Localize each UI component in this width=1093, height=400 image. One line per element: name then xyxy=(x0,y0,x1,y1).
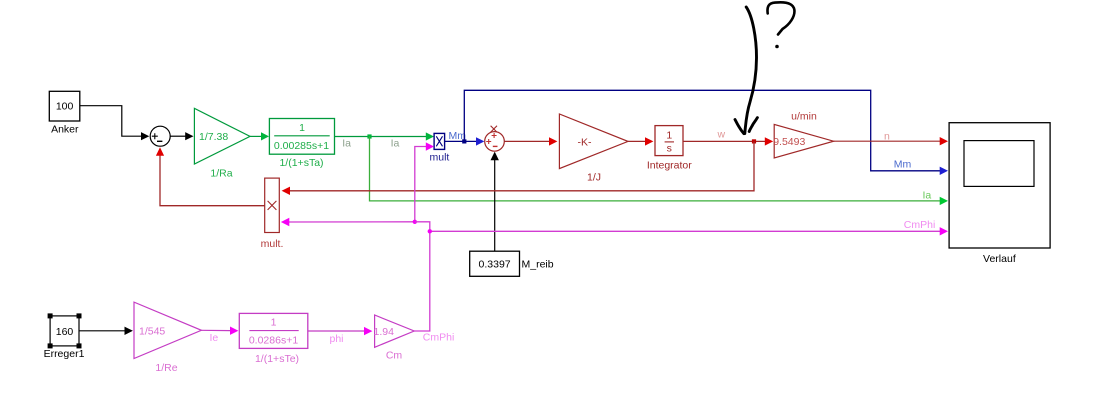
hand-drawn question mark (annotation) xyxy=(767,2,794,48)
wire Mm feedback to scope (up, across top, down) xyxy=(464,90,948,175)
constant M_reib (0.3397) xyxy=(470,251,554,276)
scope Verlauf xyxy=(949,123,1050,265)
wire w feedback (down then left) to mult. xyxy=(282,141,754,195)
transfer function 1/(1+sTe) xyxy=(239,313,307,364)
wire phi: TF to gain Cm xyxy=(308,327,373,335)
svg-text:CmPhi: CmPhi xyxy=(904,219,936,231)
wire Ia: TF output to product mult, with junction xyxy=(335,132,435,140)
svg-text:1: 1 xyxy=(271,317,277,329)
svg-text:u/min: u/min xyxy=(791,111,817,123)
wire 1/Ra to TF 1/(1+sTa) xyxy=(250,132,269,140)
wire mult. output to Sum1 (left then up, minus) xyxy=(156,147,265,206)
svg-text:0.3397: 0.3397 xyxy=(479,259,511,271)
wire Ia feedback to scope (down then right) xyxy=(370,137,949,206)
svg-text:mult.: mult. xyxy=(261,238,284,250)
svg-text:Verlauf: Verlauf xyxy=(983,253,1016,265)
wire Anker to Sum1 xyxy=(80,106,150,141)
sum junction Sum2 (x + + -) xyxy=(485,126,505,152)
constant Anker (value 100) xyxy=(49,91,80,135)
svg-text:1/Re: 1/Re xyxy=(155,362,177,374)
svg-text:w: w xyxy=(717,129,726,141)
svg-text:phi: phi xyxy=(330,333,344,345)
svg-text:Ia: Ia xyxy=(923,190,932,202)
wire n: u/min gain to scope xyxy=(834,137,948,145)
gain u/min (9.5493) xyxy=(773,111,833,158)
sum junction Sum1 (+ -) xyxy=(150,126,170,146)
svg-text:100: 100 xyxy=(56,101,74,113)
wire Sum1 to gain 1/Ra xyxy=(170,132,193,140)
svg-text:Ia: Ia xyxy=(342,137,351,149)
hand-drawn arrow (annotation) xyxy=(735,7,757,134)
svg-text:1: 1 xyxy=(299,122,305,134)
svg-text:1/7.38: 1/7.38 xyxy=(199,131,228,143)
svg-text:s: s xyxy=(667,143,672,155)
wire w: Integrator to gain u/min, with junction xyxy=(683,137,773,145)
wire Erreger1 to gain 1/Re xyxy=(79,327,133,335)
svg-text:1/Ra: 1/Ra xyxy=(210,168,232,180)
integrator block 1/s xyxy=(647,126,692,172)
svg-text:1.94: 1.94 xyxy=(374,326,395,338)
wire CmPhi branch to mult. lower input xyxy=(281,218,415,226)
svg-text:160: 160 xyxy=(56,326,74,338)
svg-text:1/(1+sTa): 1/(1+sTa) xyxy=(279,157,323,169)
svg-text:Ia: Ia xyxy=(391,137,400,149)
gain 1/Re (1/545) xyxy=(134,302,201,374)
svg-text:Mm: Mm xyxy=(894,159,912,171)
svg-text:M_reib: M_reib xyxy=(522,259,554,271)
product block mult (blue) xyxy=(430,133,450,163)
svg-text:-K-: -K- xyxy=(578,136,593,148)
wire Mm: mult output to Sum2 with junction xyxy=(445,137,485,145)
constant Erreger1 (value 160, selected) xyxy=(44,313,85,360)
svg-text:Erreger1: Erreger1 xyxy=(44,348,85,360)
svg-text:0.00285s+1: 0.00285s+1 xyxy=(274,140,329,152)
svg-text:0.0286s+1: 0.0286s+1 xyxy=(249,335,298,347)
svg-text:n: n xyxy=(884,130,890,142)
wire CmPhi from Cm up and right to scope, with junction xyxy=(414,222,948,331)
wire M_reib to Sum2 (bottom, minus) xyxy=(491,152,499,252)
svg-text:mult: mult xyxy=(430,152,450,164)
svg-text:1/545: 1/545 xyxy=(139,325,165,337)
product block mult. (red) xyxy=(261,178,284,250)
wire CmPhi branch up to product mult input xyxy=(413,142,434,224)
gain 1/J (-K-) xyxy=(559,114,628,183)
svg-text:9.5493: 9.5493 xyxy=(773,136,805,148)
svg-text:1: 1 xyxy=(666,129,672,141)
svg-text:Anker: Anker xyxy=(51,124,79,136)
gain 1/Ra (1/7.38) xyxy=(194,108,250,179)
svg-text:CmPhi: CmPhi xyxy=(423,331,455,343)
svg-text:1/J: 1/J xyxy=(587,171,601,183)
transfer function 1/(1+sTa) xyxy=(269,119,334,170)
wire Sum2 to gain 1/J xyxy=(504,137,557,145)
svg-text:Ie: Ie xyxy=(210,332,219,344)
svg-text:Cm: Cm xyxy=(386,349,403,361)
wire 1/J to Integrator xyxy=(628,137,653,145)
wire Ie: 1/Re to TF 1/(1+sTe) xyxy=(201,327,238,335)
svg-text:Integrator: Integrator xyxy=(647,159,692,171)
gain Cm (1.94) xyxy=(374,315,415,361)
svg-text:1/(1+sTe): 1/(1+sTe) xyxy=(255,353,299,365)
